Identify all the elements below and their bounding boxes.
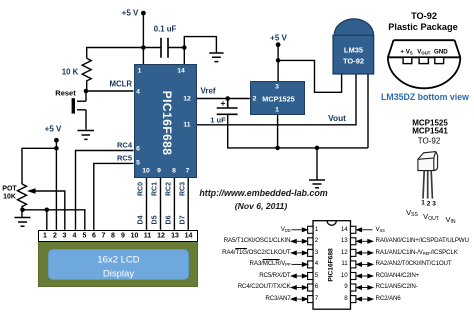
label Vref	[200, 87, 215, 96]
node +5V LM35 branch junction	[276, 58, 281, 63]
TO-92 bottom view outline	[388, 40, 460, 88]
label +5V left	[45, 125, 62, 134]
label Vout	[328, 113, 346, 123]
label 1 uF	[210, 115, 225, 124]
DIP right label pin13	[376, 238, 469, 245]
TO-92 pad label GND	[434, 48, 448, 55]
node LCD pin1 junction	[45, 208, 50, 213]
label +5V right	[270, 33, 287, 42]
TO-92 pad label +Vs	[400, 48, 412, 55]
voltage reference U2 MCP1525	[250, 81, 305, 115]
pin 5	[136, 160, 140, 167]
DIP body PIC16F688	[313, 221, 351, 310]
DIP left label pin7	[265, 296, 290, 303]
wire C2 bottom to ground bus	[228, 114, 278, 148]
node ground bus earth junction	[315, 146, 320, 151]
caption Plastic Package	[388, 22, 457, 32]
ground symbol top right	[209, 53, 223, 62]
label D5	[152, 216, 159, 225]
caption URL	[199, 188, 327, 198]
label + of C2	[221, 98, 226, 108]
wire +5V branch to LM35 +Vs leg	[278, 60, 342, 92]
DIP right label pin11	[376, 261, 452, 268]
label +5V top	[122, 9, 139, 18]
DIP left label pin6	[238, 284, 291, 291]
capacitor C1 0.1uF plates	[161, 38, 168, 58]
pin 11	[183, 122, 190, 129]
resistor R1 10K zigzag	[82, 58, 91, 91]
label 0.1 uF	[154, 25, 177, 34]
potentiometer wiper arrow	[27, 188, 36, 194]
wire ground bus to LCD pin5 and pin1	[23, 210, 85, 230]
node junction pin1/+5V	[141, 45, 146, 50]
label RC1	[152, 182, 159, 196]
label Vin 3D	[445, 215, 455, 225]
label 10K	[3, 193, 16, 200]
pin 6	[136, 145, 140, 152]
potentiometer POT 10K zigzag	[18, 184, 27, 217]
DIP right label pin8	[376, 296, 401, 303]
node +5V left junction	[54, 146, 59, 151]
wire RC1 pin9 to LCD pin12	[160, 178, 162, 230]
DIP rotated chip name	[327, 248, 334, 281]
caption TO-92	[411, 11, 437, 21]
node MCLR junction	[84, 89, 89, 94]
ground symbol under POT	[15, 218, 31, 227]
DIP right label pin14 Vss	[376, 227, 385, 234]
label Reset	[55, 89, 75, 98]
LCD module body	[38, 241, 199, 287]
label Vout 3D	[423, 212, 439, 222]
TO-92 pad label Vout	[417, 48, 430, 55]
label RC0	[138, 182, 145, 196]
wire pin 14 drop	[183, 48, 185, 65]
label MCLR	[110, 79, 133, 88]
label RC2	[166, 182, 173, 196]
wire RC5 to LCD pin6	[94, 163, 134, 229]
pin 2	[253, 95, 257, 102]
label D7	[180, 216, 187, 225]
wire +5V to MCP1525 pin3	[277, 45, 279, 81]
caption LM35DZ bottom view	[381, 92, 469, 102]
wire Vref pin12 to MCP1525 pin2	[197, 98, 250, 100]
microcontroller U1 PIC16F688	[134, 64, 197, 178]
DIP left label pin1 VDD	[281, 227, 291, 234]
label 10 K	[62, 68, 78, 77]
node A +5V top terminal dot	[141, 11, 146, 16]
sensor LM35 TO-92 body	[333, 19, 374, 74]
sensor LM35 labels	[344, 46, 363, 55]
pin 10	[142, 167, 150, 174]
pin 1	[275, 107, 279, 114]
pushbutton cap bar	[72, 98, 75, 113]
pin 8	[172, 167, 176, 174]
label RC4	[117, 141, 132, 150]
label Vss 3D	[406, 208, 418, 218]
TO-92 bottom view pin pads	[403, 57, 443, 63]
TO-92 3D leg numbers 1 2 3	[421, 200, 425, 207]
node +5V right terminal dot	[276, 42, 281, 47]
DIP left label pin2	[224, 238, 291, 245]
TO-92 3D legs	[423, 171, 432, 199]
DIP left label pin3	[222, 250, 290, 257]
wire RC0 pin10 to LCD pin11	[146, 178, 148, 230]
wire MCP1525 pin1 to ground bus	[277, 115, 279, 148]
pushbutton Reset	[77, 91, 86, 130]
DIP arrows left	[291, 228, 307, 301]
wire POT wiper to LCD pin3	[30, 191, 65, 230]
wire RC2 pin8 to LCD pin13	[173, 178, 175, 230]
wire RC3 pin7 to LCD pin14	[187, 178, 189, 230]
DIP left label pin4	[250, 261, 291, 268]
pin 12	[183, 95, 191, 102]
LCD pin header strip	[38, 230, 198, 242]
wire +5V stub to pin 1	[142, 13, 144, 64]
DIP right label pin12	[376, 250, 458, 257]
capacitor C2 1uF	[217, 99, 238, 115]
TO-92 3D package body	[418, 152, 438, 171]
label D4	[138, 216, 145, 225]
pin 3	[275, 83, 279, 90]
caption MCP1541	[412, 127, 448, 136]
node junction pin14	[182, 45, 187, 50]
DIP left label pin5	[259, 273, 290, 280]
pin 9	[157, 167, 161, 174]
pin 1	[138, 68, 142, 75]
wire +5V to POT top	[22, 148, 56, 184]
DIP arrows right	[357, 228, 373, 301]
DIP pin boxes right 14-8	[351, 226, 356, 302]
label POT	[2, 185, 16, 192]
wire top +5V rail to MCLR pullup, caps and pin14	[87, 37, 217, 59]
wire RC4 to LCD pin4	[76, 151, 134, 230]
wire LM35 Vout to PIC pin11	[197, 74, 356, 125]
DIP right label pin9	[376, 284, 418, 291]
label RC3	[180, 182, 187, 196]
pin 7	[186, 167, 190, 174]
pin 14	[177, 68, 185, 75]
label D6	[166, 216, 173, 225]
DIP right label pin10	[376, 273, 420, 280]
wire LM35 GND leg	[367, 74, 369, 148]
wire MCLR node to PIC pin 4	[86, 90, 134, 92]
node +5V left terminal dot	[54, 138, 59, 143]
node POT bottom junction	[20, 208, 25, 213]
node ground bus MCP junction	[275, 146, 280, 151]
DIP pin numbers right	[341, 227, 348, 234]
DIP pin numbers left	[315, 227, 318, 234]
caption date	[235, 201, 287, 211]
caption MCP1525	[412, 119, 448, 128]
LCD pin numbers 1-14	[43, 233, 47, 240]
ground symbol under Reset	[78, 131, 95, 140]
node Vref capacitor junction	[225, 96, 230, 101]
pin 4	[136, 89, 140, 96]
wire ground bus right	[278, 148, 368, 180]
wire +5V left stub down to LCD pin2	[55, 140, 57, 230]
LCD screen	[48, 249, 189, 280]
DIP pin boxes left 1-7	[308, 226, 313, 302]
caption TO-92 under MCP	[418, 136, 441, 145]
ground symbol right of MCP	[309, 180, 325, 188]
label RC5	[117, 154, 132, 163]
